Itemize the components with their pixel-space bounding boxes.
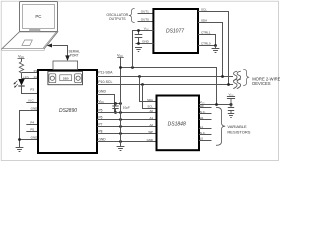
brace variable resistors <box>216 107 225 145</box>
DB9 connector <box>48 61 83 85</box>
ground (left of DS2890) <box>16 148 24 152</box>
svg-text:VARIABLE: VARIABLE <box>227 124 247 129</box>
capacitor C2 (DS1848, above wire) <box>227 97 235 105</box>
wire SDA bus <box>97 76 233 78</box>
svg-text:GND: GND <box>147 138 153 142</box>
break symbol SDA <box>233 71 241 80</box>
wire GND pin 1 <box>20 111 39 148</box>
junction cap bottom <box>137 42 140 45</box>
wire P4-A0 <box>97 112 157 114</box>
wire N.C. stub (lower) <box>199 134 212 136</box>
oscillator outputs label <box>106 13 128 21</box>
wire DS1077 SDA to bus <box>198 23 223 77</box>
wire P6-A2 <box>97 126 157 128</box>
page border frame <box>1 1 278 160</box>
LED D1 <box>14 75 30 87</box>
svg-text:OUT1: OUT1 <box>141 9 149 13</box>
svg-text:OUTPUTS: OUTPUTS <box>109 17 126 21</box>
junction Vcc/cap <box>114 102 117 105</box>
junction Vcc rail/DS1077 <box>131 66 134 69</box>
net labels right side DS2890 <box>99 109 107 142</box>
junction cap top <box>137 29 140 32</box>
resistor R1 <box>19 62 23 74</box>
junction Vcc rail/drop <box>119 66 122 69</box>
svg-text:DB9: DB9 <box>63 76 69 80</box>
wire DS1077 GND <box>136 43 154 45</box>
wire P5 stub <box>26 131 38 133</box>
wire L1 stub <box>199 128 212 130</box>
oscillator DS1077 <box>153 9 198 53</box>
svg-text:OUT0: OUT0 <box>141 17 149 21</box>
svg-text:DEVICES: DEVICES <box>252 81 271 86</box>
wire N.C. stub (upper) <box>199 113 212 115</box>
wire OUT0 stub <box>138 21 154 23</box>
svg-text:CTRL1: CTRL1 <box>201 30 211 34</box>
wire N.C. stub <box>26 102 38 104</box>
wire SCL bus <box>97 84 233 86</box>
microcontroller DS2890 <box>38 70 97 153</box>
wire LED anode to P2 <box>22 74 39 79</box>
svg-text:WP: WP <box>148 130 153 134</box>
wire L0 stub <box>199 140 212 142</box>
junction SCL bus <box>227 83 230 86</box>
svg-text:GND: GND <box>142 39 150 43</box>
wire DS1077 SCL to bus <box>198 12 229 85</box>
PC laptop base <box>2 32 58 51</box>
PC laptop monitor <box>20 2 58 32</box>
DS1848 left pin labels <box>147 98 154 142</box>
wire P4 stub <box>26 124 38 126</box>
serial cable wire <box>53 46 68 57</box>
svg-text:DS1848: DS1848 <box>168 122 186 128</box>
ground (CTRL pins) <box>212 46 220 53</box>
wire CTRL1 <box>198 35 216 46</box>
SERIAL PORT label <box>69 50 81 58</box>
capacitor C1 (DS1077) <box>135 31 143 44</box>
break symbol SCL <box>233 79 241 88</box>
VARIABLE RESISTORS label <box>227 124 250 135</box>
junction SDA drop <box>138 75 141 78</box>
junction SCL drop <box>141 83 144 86</box>
capacitor 10uF <box>112 104 130 113</box>
svg-text:DS1077: DS1077 <box>166 28 184 34</box>
resistor chip DS1848 <box>157 96 200 151</box>
svg-text:DS2890: DS2890 <box>59 108 77 114</box>
wire DS1077 Vcc <box>133 31 154 68</box>
svg-text:P7: P7 <box>99 123 103 127</box>
svg-text:P11-SDA: P11-SDA <box>98 71 113 75</box>
wire H0 stub <box>199 107 212 109</box>
wire CTRL0 <box>198 45 216 47</box>
DS1848 right pin labels <box>200 104 206 141</box>
junction CTRL <box>214 44 217 47</box>
capacitor C3 (DS1848, below wire) <box>228 105 234 114</box>
svg-text:P10-SCL: P10-SCL <box>98 80 112 84</box>
svg-text:SDA: SDA <box>201 18 207 22</box>
brace more devices <box>243 69 249 85</box>
junction Vcc flag/cap <box>230 103 233 106</box>
wire LED cathode to P3 <box>22 86 39 93</box>
svg-text:SCL: SCL <box>201 7 207 11</box>
svg-text:A2: A2 <box>149 123 153 127</box>
svg-text:P3: P3 <box>30 87 34 91</box>
svg-text:GND: GND <box>98 90 106 94</box>
wire P5-A1 <box>97 119 157 121</box>
svg-text:N.C.: N.C. <box>29 98 35 102</box>
wire GND pin 2 <box>20 139 39 141</box>
wire OUT1 stub <box>138 13 154 15</box>
wire resistor to P1 <box>22 72 39 74</box>
junction bottom ground <box>119 140 122 143</box>
serial cable arrow into DB9 <box>65 55 70 61</box>
ground (DS1077) <box>135 48 142 52</box>
junction SDA bus <box>221 75 224 78</box>
svg-text:P5: P5 <box>99 109 103 113</box>
junction GND rail <box>18 138 21 141</box>
junction Vcc rail drop <box>215 103 218 106</box>
wire Vcc to resistor <box>21 59 23 62</box>
wire H1 stub <box>199 119 212 121</box>
ground (below bus rail) <box>117 142 125 151</box>
svg-text:A1: A1 <box>149 116 153 120</box>
junction Vcc/Vcc-drop <box>119 102 122 105</box>
svg-text:SDA: SDA <box>147 98 153 102</box>
serial cable arrow to laptop <box>47 44 52 48</box>
svg-text:P8: P8 <box>99 130 103 134</box>
svg-text:RESISTORS: RESISTORS <box>227 129 250 134</box>
junction cap/A0 line <box>114 111 117 114</box>
svg-text:PORT: PORT <box>70 53 79 57</box>
MORE 2-WIRE DEVICES label <box>252 76 281 86</box>
wire Vcc rail <box>121 68 217 105</box>
svg-text:PC: PC <box>35 14 41 19</box>
svg-text:LED: LED <box>23 75 30 79</box>
ground (DS1848 Vcc cap) <box>228 114 234 118</box>
svg-text:GND: GND <box>99 138 107 142</box>
wire Vcc drop <box>120 58 122 142</box>
wire P7-WP <box>97 133 157 135</box>
wire GND to rail <box>97 95 115 113</box>
svg-text:A0: A0 <box>149 109 153 113</box>
svg-text:10µF: 10µF <box>123 106 130 110</box>
wire SCL drop to DS1848 <box>143 85 157 109</box>
junctions on GND rail <box>119 111 122 114</box>
svg-text:P6: P6 <box>99 116 103 120</box>
wire DS1848 Vcc <box>199 104 231 106</box>
svg-text:CTRL0: CTRL0 <box>201 41 211 45</box>
wire GND-GND <box>97 141 157 143</box>
wire SDA drop to DS1848 <box>140 77 157 102</box>
wire Vcc pin <box>97 103 121 105</box>
brace oscillator <box>129 9 135 23</box>
